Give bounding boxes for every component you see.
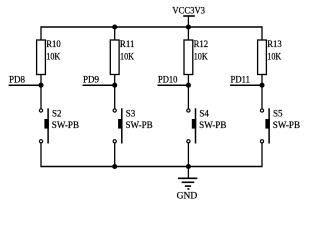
wire top bus VCC rail <box>41 26 262 28</box>
svg-text:S2: S2 <box>52 109 62 119</box>
wire switch S4 to ground bus <box>187 143 189 167</box>
wire R12 top <box>187 26 189 40</box>
junction node PD11 <box>259 83 264 88</box>
svg-text:10K: 10K <box>120 51 134 61</box>
wire R11 top <box>114 26 116 40</box>
svg-text:R10: R10 <box>46 39 61 49</box>
svg-text:S5: S5 <box>273 109 283 119</box>
svg-text:R11: R11 <box>120 39 134 49</box>
svg-text:R12: R12 <box>194 39 209 49</box>
wire R12 bottom to switch S4 <box>187 75 189 109</box>
switch S2 SW-PB <box>39 108 79 143</box>
junction top bus at R11 <box>112 24 117 29</box>
junction bottom bus at S4/GND <box>186 164 191 169</box>
resistor R10 10K <box>37 39 62 74</box>
svg-text:GND: GND <box>177 190 198 200</box>
svg-text:10K: 10K <box>194 51 208 61</box>
wire net PD10 <box>158 84 189 86</box>
resistor R13 10K <box>258 39 283 74</box>
wire R10 bottom to switch S2 <box>40 75 42 109</box>
wire net PD9 <box>83 84 115 86</box>
switch S3 SW-PB <box>113 108 153 143</box>
wire bottom ground bus <box>41 166 262 168</box>
wire net PD8 <box>9 84 41 86</box>
junction node PD8 <box>38 83 43 88</box>
svg-text:R13: R13 <box>267 39 282 49</box>
resistor R11 10K <box>110 39 134 74</box>
wire R10 top <box>40 26 42 40</box>
wire switch S3 to ground bus <box>114 143 116 167</box>
wire R11 bottom to switch S3 <box>114 75 116 109</box>
wire switch S2 to ground bus <box>40 143 42 167</box>
wire net PD11 <box>230 84 262 86</box>
resistor R12 10K <box>184 39 208 74</box>
junction top bus at R12/VCC <box>186 24 191 29</box>
svg-text:10K: 10K <box>46 51 60 61</box>
wire switch S5 to ground bus <box>261 143 263 167</box>
svg-text:S4: S4 <box>199 109 209 119</box>
junction node PD10 <box>186 83 191 88</box>
svg-text:SW-PB: SW-PB <box>52 120 79 130</box>
svg-text:PD10: PD10 <box>158 75 178 85</box>
wire R13 top <box>261 26 263 40</box>
svg-text:PD9: PD9 <box>83 75 100 85</box>
junction bottom bus at S3 <box>112 164 117 169</box>
svg-text:SW-PB: SW-PB <box>273 120 300 130</box>
ground GND <box>177 167 198 201</box>
svg-text:VCC3V3: VCC3V3 <box>172 6 205 16</box>
wire R13 bottom to switch S5 <box>261 75 263 109</box>
svg-text:SW-PB: SW-PB <box>199 120 226 130</box>
svg-text:PD11: PD11 <box>231 75 250 85</box>
junction node PD9 <box>112 83 117 88</box>
switch S5 SW-PB <box>260 108 300 143</box>
switch S4 SW-PB <box>187 108 227 143</box>
svg-text:10K: 10K <box>267 51 281 61</box>
power symbol VCC3V3 <box>172 6 205 27</box>
svg-text:S3: S3 <box>126 109 136 119</box>
svg-text:PD8: PD8 <box>9 75 26 85</box>
svg-text:SW-PB: SW-PB <box>126 120 153 130</box>
